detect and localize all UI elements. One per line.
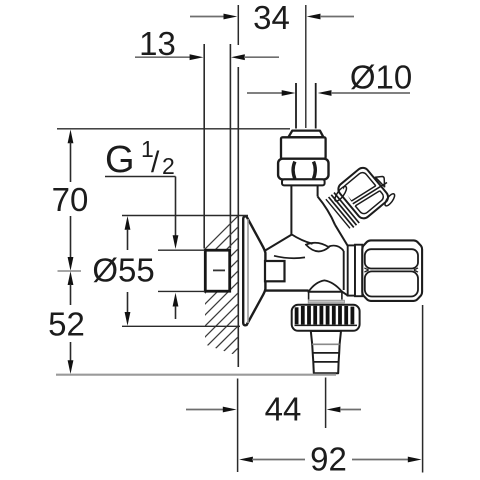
collar rings	[348, 245, 355, 295]
body shoulder curve	[292, 235, 313, 244]
svg-text:2: 2	[162, 153, 175, 179]
dim 52	[48, 271, 85, 374]
nut waist ticks	[364, 268, 418, 272]
svg-text:Ø55: Ø55	[92, 252, 154, 289]
knob chamfer triangle right	[375, 177, 384, 187]
knob right corner facet	[383, 192, 396, 207]
fitting shoulder	[282, 179, 325, 185]
outlet compression nut	[362, 240, 422, 301]
knob upper facet panel	[341, 171, 385, 216]
vertical pipe centerline	[305, 5, 307, 128]
valve neck rectangle	[265, 261, 285, 281]
dim 44	[186, 378, 361, 473]
nut lower facet pillow	[365, 271, 418, 296]
knob outline: rounded rect rotated 50deg	[336, 165, 391, 221]
svg-text:13: 13	[139, 25, 176, 62]
drain shoulder	[308, 300, 344, 303]
dim 13	[135, 25, 279, 62]
body waist under-curve	[274, 256, 305, 258]
dim 70	[52, 129, 290, 271]
knob lower facet panel	[341, 171, 385, 216]
knob left corner facet	[333, 185, 349, 203]
knurled ring	[292, 305, 360, 331]
dim Ø10	[247, 59, 412, 96]
wall front face line	[237, 67, 239, 367]
svg-text:Ø10: Ø10	[350, 59, 412, 96]
stem base leaf detail	[306, 243, 329, 252]
stem rings	[334, 193, 359, 223]
fitting upper body	[281, 137, 326, 158]
svg-text:70: 70	[52, 181, 89, 218]
knob facet band line	[353, 183, 387, 204]
bottom extension line	[56, 374, 336, 376]
G1/2 threaded tail in wall	[205, 250, 229, 291]
fitting neck lines	[290, 185, 292, 234]
body bottom dome over drain	[309, 280, 342, 291]
body to collar bottom transition	[342, 292, 348, 296]
body to collar top transition	[335, 225, 348, 246]
svg-text:/: /	[151, 146, 160, 179]
hose barb	[311, 331, 341, 373]
axis tick	[58, 270, 82, 272]
wall hatching	[194, 188, 266, 447]
dim Ø55	[92, 216, 248, 327]
wall back face line	[203, 44, 205, 249]
svg-text:52: 52	[48, 306, 85, 343]
dim G 1/2 with leader	[105, 136, 205, 319]
svg-text:G: G	[105, 139, 135, 181]
body top-right under-knob curve	[318, 197, 335, 225]
rosette (wall escutcheon)	[243, 216, 265, 325]
pipe Ø10	[295, 83, 297, 129]
body outline left diagonal	[265, 235, 291, 251]
wall mid line (13 extension)	[229, 44, 231, 249]
svg-text:92: 92	[310, 440, 347, 477]
svg-text:44: 44	[265, 391, 302, 428]
body right face vertical	[343, 251, 345, 290]
dim 92	[239, 305, 423, 477]
nut upper facet pillow	[365, 249, 418, 268]
body right face curve	[329, 246, 344, 251]
compression cone	[288, 131, 323, 138]
svg-text:34: 34	[253, 0, 290, 36]
fitting hex nut	[278, 159, 328, 180]
body bottom line	[265, 289, 308, 291]
dim 34	[190, 0, 354, 45]
